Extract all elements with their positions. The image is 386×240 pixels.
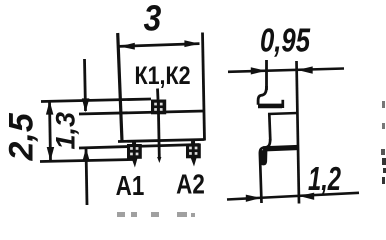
dimension 3: right extension / body right edge (203, 33, 205, 141)
wire: body bottom edge L3 (118, 140, 205, 142)
side view: body front edge (269, 114, 270, 141)
svg-text:К1,К2: К1,К2 (134, 61, 190, 89)
side view: bottom lead lower end blob (260, 150, 268, 165)
dimension 3: left extension / body left edge (118, 33, 122, 142)
dimension 2,5: top arrowhead (46, 101, 54, 115)
dimension 2,5: bottom arrowhead (47, 147, 55, 161)
side view: top lead foot (258, 104, 282, 109)
scan artifact: right edge specks (382, 101, 385, 108)
dimension 1,2: right arrowhead (299, 193, 314, 200)
dimension 1,3: lower arrowhead pointing up (82, 148, 90, 162)
svg-text:3: 3 (144, 0, 162, 39)
lead A2: pointed tip (190, 157, 196, 167)
side view: body bottom thick edge (263, 148, 298, 149)
side view: body back edge (297, 61, 300, 204)
side view: top lead vertical / extension (265, 60, 268, 90)
wire: bottom extension line L5 (40, 160, 133, 162)
wire: top lead upper edge line L1 (41, 99, 151, 102)
svg-text:1,3: 1,3 (51, 112, 81, 150)
side view: top lead foot up-tick (281, 100, 284, 108)
svg-text:1,2: 1,2 (308, 161, 341, 198)
svg-text:А2: А2 (176, 169, 205, 200)
dimension 1,2: left arrowhead (246, 195, 261, 202)
lead K1,K2: lower pointed tip (157, 157, 161, 163)
svg-text:0,95: 0,95 (260, 23, 311, 60)
side view: body top front edge (268, 113, 298, 114)
dimension 0,95: dimension line with outside arrows (228, 69, 344, 72)
lead A1: pointed tip (131, 158, 137, 168)
wire: body top edge L2 (79, 111, 204, 114)
dimension 2,5: dimension line (50, 101, 51, 161)
dimension 0,95: right arrowhead (298, 66, 313, 73)
dimension 3: right arrowhead (184, 40, 199, 47)
scan artifact: cut-off caption letter tops at bottom (117, 212, 195, 217)
lead A2: stub (191, 141, 196, 158)
lead A1: cross-section square (127, 144, 142, 159)
svg-text:2,5: 2,5 (3, 112, 41, 161)
lead A2: cross-section square (186, 144, 201, 159)
side view: bottom lead bend and extension line (260, 139, 270, 203)
wire: lead bend line L4 (79, 145, 200, 149)
dimension 3: dimension line (119, 44, 200, 47)
dimension 1,3: lower outside arrow shaft (86, 149, 87, 206)
lead K1,K2: cross-section square (151, 100, 166, 115)
dimension 3: left arrowhead (119, 43, 135, 50)
svg-text:А1: А1 (116, 171, 145, 202)
lead K1,K2: upper stub line (156, 89, 159, 100)
side view: top lead bend (258, 86, 266, 105)
lead A1: stub (132, 142, 137, 159)
dimension 0,95: left arrowhead (251, 67, 266, 74)
dimension 1,3: upper outside arrow shaft (85, 59, 86, 111)
lead K1,K2: line through body (157, 113, 161, 158)
dimension 1,3: upper arrowhead pointing down (82, 98, 90, 112)
dimension 1,2: dimension line with outside arrows (227, 193, 359, 200)
